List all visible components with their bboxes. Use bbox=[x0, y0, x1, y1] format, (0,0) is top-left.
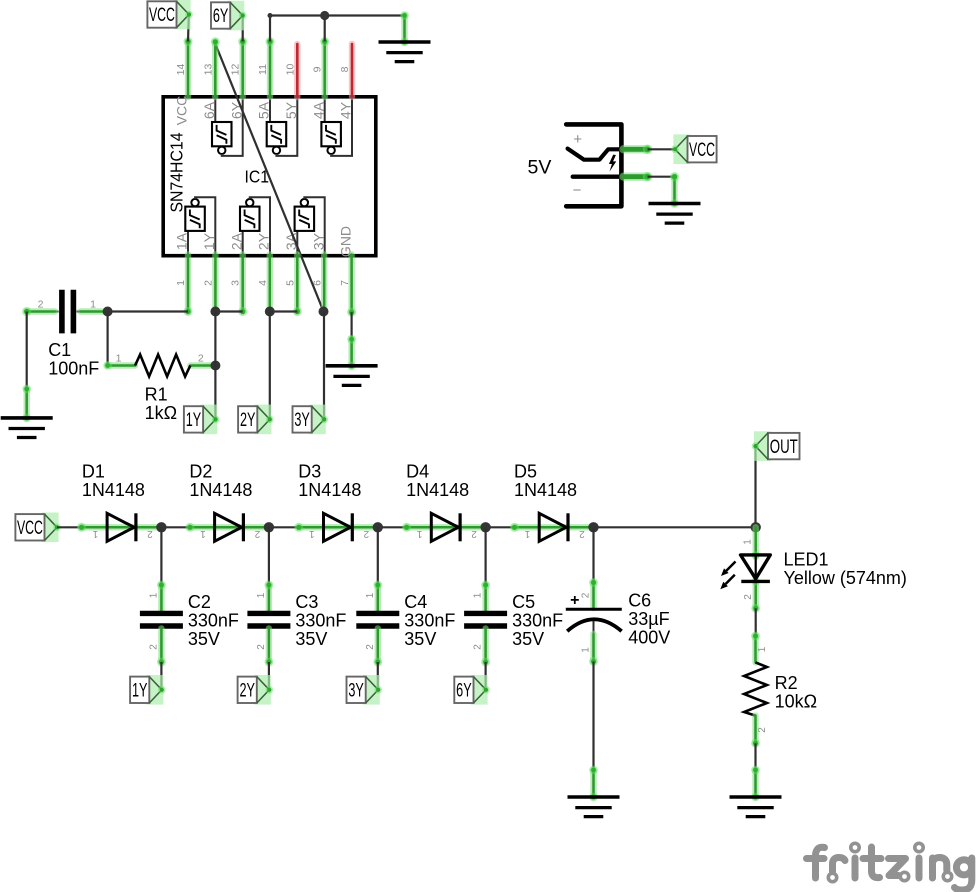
wire pin5 to pin4 node bbox=[270, 310, 298, 312]
battery minus pin bbox=[624, 172, 653, 182]
wire node to C3 bbox=[268, 527, 270, 585]
svg-text:D3: D3 bbox=[298, 462, 321, 482]
node pin9/pin11/gnd junction bbox=[320, 11, 329, 20]
bend point bbox=[268, 13, 273, 18]
C3 value label bbox=[295, 592, 346, 649]
svg-text:C3: C3 bbox=[295, 592, 318, 612]
svg-text:2: 2 bbox=[363, 528, 369, 539]
capacitor C1 bbox=[22, 290, 103, 334]
inverter gate 6A-6Y bbox=[212, 98, 243, 156]
R2 pin 1 bbox=[751, 632, 760, 663]
node rail 4 bbox=[480, 522, 490, 532]
D4 anode wire end bbox=[402, 523, 411, 532]
svg-text:C1: C1 bbox=[48, 340, 71, 360]
ground C6 bbox=[568, 793, 620, 817]
pin 2 1Y bbox=[212, 255, 218, 312]
svg-text:1N4148: 1N4148 bbox=[298, 480, 361, 500]
C3 pin 1 bbox=[265, 581, 274, 612]
ground pin C6 bbox=[589, 766, 598, 797]
svg-text:C6: C6 bbox=[628, 591, 651, 611]
svg-text:2: 2 bbox=[254, 528, 260, 539]
svg-text:1: 1 bbox=[757, 646, 768, 652]
flag 1Y lower bbox=[130, 675, 166, 705]
wire node to C4 bbox=[377, 527, 379, 585]
wire C2 to flag bbox=[160, 662, 162, 690]
svg-text:+: + bbox=[570, 592, 579, 609]
svg-text:1: 1 bbox=[92, 528, 98, 539]
resistor R2 bbox=[744, 662, 767, 715]
svg-text:VCC: VCC bbox=[174, 96, 190, 126]
svg-text:3Y: 3Y bbox=[294, 410, 310, 431]
LED1 label bbox=[784, 550, 907, 589]
wire minus to corner bbox=[648, 176, 675, 178]
wire plus to VCC flag bbox=[648, 148, 674, 150]
svg-text:1: 1 bbox=[524, 528, 530, 539]
LED1 pin numbers bbox=[743, 539, 755, 600]
R2 pin numbers bbox=[757, 646, 768, 733]
wire rail to OUT node bbox=[594, 526, 756, 528]
svg-text:2: 2 bbox=[473, 644, 484, 650]
svg-text:2Y: 2Y bbox=[240, 410, 256, 431]
svg-text:2: 2 bbox=[256, 644, 267, 650]
svg-text:1N4148: 1N4148 bbox=[406, 480, 469, 500]
wire C1 to ground bbox=[26, 312, 28, 390]
C6 pin numbers bbox=[580, 592, 591, 653]
inverter gate 1A-1Y bbox=[185, 197, 215, 254]
inverter gate 5A-5Y bbox=[267, 98, 298, 156]
node rail 5 bbox=[588, 522, 598, 532]
wire 6Y flag to pin 12 bbox=[242, 16, 244, 42]
inverter gate 3A-3Y bbox=[295, 197, 325, 254]
svg-text:D5: D5 bbox=[514, 462, 537, 482]
C6 pin 1 bbox=[589, 621, 598, 666]
wire LED to R2 bbox=[755, 608, 757, 636]
D1 anode wire end bbox=[77, 523, 86, 532]
IC IC1 body (SN74HC14) bbox=[163, 97, 376, 256]
IC bottom pin labels bbox=[174, 226, 354, 257]
C2 pin 1 bbox=[157, 581, 166, 612]
C5 value label bbox=[512, 592, 563, 649]
C4 value label bbox=[404, 592, 455, 649]
ground pin bottom-left bbox=[22, 385, 31, 418]
wire D2 to D3 bbox=[269, 526, 299, 528]
diode D1 bbox=[107, 513, 136, 541]
svg-text:330nF: 330nF bbox=[188, 611, 239, 631]
svg-text:1: 1 bbox=[365, 592, 376, 598]
fritzing logo bbox=[807, 843, 972, 890]
svg-text:2: 2 bbox=[471, 528, 477, 539]
node rail 2 bbox=[264, 522, 274, 532]
svg-text:1: 1 bbox=[256, 592, 267, 598]
svg-text:35V: 35V bbox=[512, 629, 544, 649]
diode D2 bbox=[215, 513, 244, 541]
D5 pin numbers bbox=[524, 528, 585, 539]
svg-text:400V: 400V bbox=[628, 628, 670, 648]
svg-text:330nF: 330nF bbox=[404, 611, 455, 631]
D4 pin numbers bbox=[416, 528, 477, 539]
svg-text:2: 2 bbox=[743, 594, 754, 600]
svg-text:1N4148: 1N4148 bbox=[189, 480, 252, 500]
C5 pin 1 bbox=[481, 581, 490, 612]
pin 10 5Y unconnected bbox=[294, 44, 300, 97]
wire R2 to ground bbox=[754, 743, 756, 770]
C2 pin numbers bbox=[148, 592, 159, 650]
pin 11 5A bbox=[266, 37, 275, 97]
svg-text:1Y: 1Y bbox=[186, 410, 202, 431]
ground pin top-right bbox=[400, 11, 409, 42]
C5 pin numbers bbox=[473, 592, 484, 650]
svg-text:1: 1 bbox=[148, 592, 159, 598]
battery plus pin bbox=[624, 145, 653, 155]
diode D5 bbox=[539, 513, 568, 541]
svg-text:1kΩ: 1kΩ bbox=[145, 403, 177, 423]
svg-text:Yellow (574nm): Yellow (574nm) bbox=[784, 568, 907, 588]
R2 pin 2 bbox=[751, 716, 760, 748]
D3 anode wire end bbox=[294, 523, 303, 532]
flag VCC rail bbox=[15, 513, 60, 543]
wire D1 to D2 bbox=[161, 526, 190, 528]
wire VCC flag to pin 14 bbox=[187, 15, 190, 41]
flag 6Y bbox=[211, 1, 247, 31]
C4 pin numbers bbox=[365, 592, 376, 650]
D5 label bbox=[514, 462, 577, 501]
C3 pin numbers bbox=[256, 592, 267, 650]
svg-text:D2: D2 bbox=[189, 462, 212, 482]
svg-text:330nF: 330nF bbox=[295, 611, 346, 631]
flag OUT bbox=[752, 431, 800, 461]
D1 pin numbers bbox=[92, 528, 152, 539]
C4 pin 1 bbox=[373, 581, 382, 612]
wire pin 9 up bbox=[324, 16, 326, 42]
svg-text:35V: 35V bbox=[188, 629, 220, 649]
D1 label bbox=[82, 462, 145, 501]
svg-text:5V: 5V bbox=[528, 157, 552, 179]
flag 2Y upper bbox=[238, 405, 274, 435]
flag 3Y upper bbox=[293, 405, 329, 435]
svg-text:C5: C5 bbox=[512, 592, 535, 612]
svg-text:1N4148: 1N4148 bbox=[82, 480, 145, 500]
capacitor C2 bbox=[140, 613, 183, 626]
diode D4 bbox=[431, 513, 460, 541]
power supply 5V body bbox=[566, 124, 621, 206]
C3 pin 2 bbox=[265, 628, 274, 666]
pin 4 2Y bbox=[267, 255, 273, 312]
C4 pin 2 bbox=[373, 628, 382, 666]
capacitor C5 bbox=[464, 613, 507, 626]
inverter gate 4A-4Y bbox=[321, 98, 352, 156]
svg-text:6Y: 6Y bbox=[213, 6, 229, 27]
node C1/pin1 bbox=[103, 307, 113, 317]
D3 pins bbox=[299, 524, 378, 530]
R2 value label bbox=[775, 673, 817, 712]
wire node to C2 bbox=[160, 527, 162, 585]
pin 5 3A bbox=[293, 255, 302, 317]
pin 14 VCC bbox=[184, 37, 193, 97]
capacitor C6 bbox=[566, 592, 622, 631]
wire VCC to D1 bbox=[57, 526, 82, 528]
LED LED1 bbox=[720, 555, 770, 589]
svg-text:VCC: VCC bbox=[689, 140, 715, 161]
flag VCC top-left bbox=[147, 0, 192, 29]
capacitor C3 bbox=[247, 613, 290, 626]
svg-text:2Y: 2Y bbox=[239, 681, 255, 702]
D4 pins bbox=[407, 524, 486, 530]
node R1/1Y bbox=[210, 361, 220, 371]
node pin4/2Y junction bbox=[265, 307, 275, 317]
svg-text:OUT: OUT bbox=[770, 437, 798, 458]
svg-text:2: 2 bbox=[198, 353, 204, 365]
svg-text:SN74HC14: SN74HC14 bbox=[167, 132, 187, 212]
pin 13 6A bbox=[211, 37, 220, 97]
svg-text:35V: 35V bbox=[295, 629, 327, 649]
C5 pin 2 bbox=[481, 628, 490, 666]
svg-text:1: 1 bbox=[309, 528, 315, 539]
svg-text:35V: 35V bbox=[404, 629, 436, 649]
wire C6 to ground bbox=[592, 662, 594, 771]
pin 3 2A bbox=[238, 255, 247, 317]
svg-text:2: 2 bbox=[580, 592, 591, 598]
flag 3Y lower bbox=[347, 675, 383, 705]
D5 anode wire end bbox=[510, 523, 519, 532]
R1 value label bbox=[145, 385, 177, 424]
svg-text:1: 1 bbox=[743, 539, 754, 545]
svg-text:−: − bbox=[573, 182, 582, 199]
pin 6 3Y bbox=[321, 255, 327, 312]
pin 8 4Y unconnected bbox=[349, 44, 355, 97]
svg-text:6Y: 6Y bbox=[456, 681, 472, 702]
flag 2Y lower bbox=[238, 675, 274, 705]
wire C3 to flag bbox=[268, 662, 270, 690]
svg-text:1: 1 bbox=[116, 353, 122, 365]
svg-text:1: 1 bbox=[581, 647, 592, 653]
C1 value label bbox=[48, 340, 99, 379]
D3 pin numbers bbox=[309, 528, 370, 539]
diode D3 bbox=[324, 513, 353, 541]
svg-text:100nF: 100nF bbox=[48, 359, 99, 379]
node rail 1 bbox=[156, 522, 166, 532]
svg-text:LED1: LED1 bbox=[784, 550, 829, 570]
svg-text:10kΩ: 10kΩ bbox=[775, 692, 817, 712]
svg-text:3Y: 3Y bbox=[348, 681, 364, 702]
svg-text:1N4148: 1N4148 bbox=[514, 480, 577, 500]
D2 pins bbox=[190, 524, 269, 530]
wire OUT flag down bbox=[754, 446, 756, 527]
node diagonal/3Y bbox=[319, 307, 329, 317]
ground pin mid bbox=[347, 335, 356, 366]
D2 anode wire end bbox=[185, 523, 194, 532]
svg-text:2: 2 bbox=[148, 644, 159, 650]
svg-text:C2: C2 bbox=[188, 592, 211, 612]
wire D4 to D5 bbox=[486, 526, 515, 528]
svg-text:330nF: 330nF bbox=[512, 611, 563, 631]
C2 pin 2 bbox=[157, 628, 166, 666]
pin 7 GND bbox=[347, 255, 356, 317]
D2 label bbox=[189, 462, 252, 501]
wire pin3 to pin2 node bbox=[215, 310, 242, 312]
pin 9 4A bbox=[320, 37, 329, 97]
node rail OUT bbox=[751, 522, 761, 532]
wire pin4 to 2Y flag bbox=[269, 312, 271, 420]
svg-text:R1: R1 bbox=[145, 385, 168, 405]
wire pin7 to ground bbox=[351, 312, 353, 339]
svg-text:D4: D4 bbox=[406, 462, 429, 482]
resistor R1 bbox=[103, 355, 215, 377]
svg-text:C4: C4 bbox=[404, 592, 427, 612]
C6 value label bbox=[628, 591, 670, 648]
pin 12 6Y bbox=[238, 37, 247, 97]
C2 value label bbox=[188, 592, 239, 649]
C6 pin 2 bbox=[589, 578, 598, 608]
ground bottom-left bbox=[1, 414, 53, 438]
flag VCC battery bbox=[671, 134, 716, 164]
wire pin1 to C1 bbox=[108, 310, 188, 312]
svg-text:+: + bbox=[573, 131, 582, 148]
wire node to C6 bbox=[592, 527, 594, 582]
wire node to R1 bbox=[106, 312, 108, 366]
svg-text:2: 2 bbox=[147, 528, 153, 539]
flag 1Y upper bbox=[184, 405, 220, 435]
svg-text:D1: D1 bbox=[82, 462, 105, 482]
svg-text:VCC: VCC bbox=[17, 518, 43, 539]
svg-text:2: 2 bbox=[38, 299, 44, 311]
IC bottom pin numbers bbox=[175, 280, 351, 286]
svg-text:1: 1 bbox=[90, 299, 96, 311]
wire pin 11 to top ground rail bbox=[270, 16, 405, 42]
D1 pins bbox=[82, 524, 162, 530]
svg-text:1: 1 bbox=[200, 528, 206, 539]
ground top-right bbox=[379, 38, 431, 62]
D2 pin numbers bbox=[200, 528, 261, 539]
wire node to 3Y flag bbox=[323, 312, 325, 420]
wire C4 to flag bbox=[377, 662, 379, 690]
D5 pins bbox=[515, 524, 594, 530]
wire 6A to 3Y diagonal bbox=[215, 42, 324, 312]
svg-text:33µF: 33µF bbox=[628, 609, 669, 629]
IC top pin labels bbox=[174, 96, 354, 126]
LED1 pin 1 bbox=[753, 527, 759, 557]
wire corner down bbox=[670, 172, 679, 203]
ground mid bbox=[326, 362, 378, 386]
LED1 pin 2 bbox=[751, 551, 760, 613]
svg-text:R2: R2 bbox=[775, 673, 798, 693]
wire node to C5 bbox=[485, 527, 487, 585]
D3 label bbox=[298, 462, 361, 501]
inverter gate 2A-2Y bbox=[240, 197, 270, 254]
svg-text:2: 2 bbox=[579, 528, 585, 539]
ground R2 bbox=[730, 793, 782, 817]
IC top pin numbers bbox=[175, 64, 351, 76]
svg-text:1: 1 bbox=[416, 528, 422, 539]
ground pin R2 bbox=[751, 766, 760, 797]
wire D3 to D4 bbox=[378, 526, 407, 528]
ground battery bbox=[649, 199, 701, 223]
D4 label bbox=[406, 462, 469, 501]
wire pin2 to 1Y flag bbox=[214, 312, 216, 420]
node rail 3 bbox=[373, 522, 383, 532]
svg-text:1Y: 1Y bbox=[132, 681, 148, 702]
svg-text:1: 1 bbox=[473, 592, 484, 598]
svg-text:VCC: VCC bbox=[149, 5, 175, 26]
pin 1 1A bbox=[184, 255, 193, 317]
capacitor C4 bbox=[356, 613, 399, 626]
svg-text:2: 2 bbox=[365, 644, 376, 650]
flag 6Y lower bbox=[454, 675, 490, 705]
wire C5 to flag bbox=[485, 662, 487, 690]
node pin2/1Y junction bbox=[210, 307, 220, 317]
